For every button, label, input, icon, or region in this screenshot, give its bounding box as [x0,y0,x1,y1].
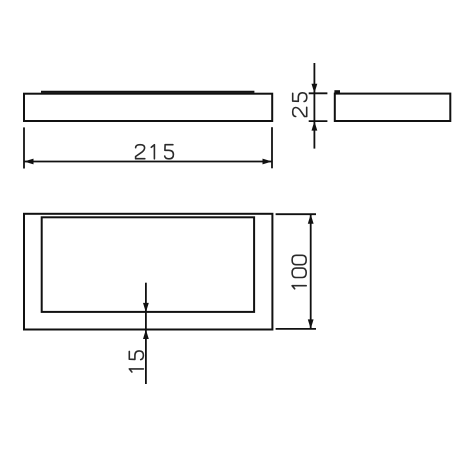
dimension line 215 [24,161,272,163]
arrowhead 15 upper [143,303,149,313]
arrowhead 215 right [263,159,273,165]
extension line top of 100 [276,213,316,215]
arrowhead 100 bottom [308,319,314,329]
extension line top of 25 [309,92,328,94]
side view outline [335,94,451,121]
label 100 [292,255,306,289]
label 25 [293,93,307,117]
arrowhead 25 top [312,84,318,94]
arrowhead 100 top [308,214,314,224]
extension line left of 215 [23,127,25,168]
arrowhead 15 lower [143,330,149,340]
front view outline [24,94,272,121]
top view outer outline [24,214,272,330]
extension line bottom of 100 [276,328,316,330]
dimension line 15 [145,283,147,384]
arrowhead 215 left [24,159,34,165]
extension line bottom of 25 [309,120,328,122]
dimension line 25 [313,63,315,149]
dimension line 100 [310,214,312,329]
arrowhead 25 bottom [312,121,318,131]
side view pad edge tick [334,90,340,94]
label 15 [129,351,143,372]
label 215 [136,145,174,159]
extension line right of 215 [271,127,273,168]
top view pad inner outline [42,217,254,312]
front view raised pad edge [41,91,254,93]
